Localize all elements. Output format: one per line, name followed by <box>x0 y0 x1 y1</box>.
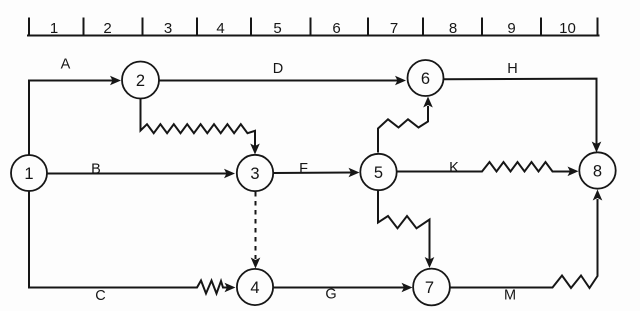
dashed dummy activity (node 3 to node 4) <box>255 192 257 259</box>
node 8 <box>579 152 615 188</box>
svg-text:2: 2 <box>103 20 111 37</box>
arrowhead G into node 7 <box>402 283 413 293</box>
svg-text:2: 2 <box>136 72 145 90</box>
svg-text:5: 5 <box>273 20 281 37</box>
svg-text:D: D <box>273 61 283 77</box>
svg-text:4: 4 <box>250 279 259 297</box>
svg-text:6: 6 <box>421 70 430 88</box>
float zigzag from node 5 up to node 6 <box>378 106 428 153</box>
svg-text:B: B <box>91 162 101 178</box>
svg-text:H: H <box>507 61 517 77</box>
svg-text:8: 8 <box>449 20 457 37</box>
arrowhead F into node 5 <box>349 168 360 178</box>
activity M arrow with float zigzag (node 7 to node 8) <box>450 199 598 288</box>
arrowhead K into node 8 <box>568 167 579 177</box>
arrowhead float 2-3 down into node 3 <box>250 144 260 155</box>
svg-text:7: 7 <box>425 279 434 297</box>
svg-text:10: 10 <box>559 20 576 37</box>
arrowhead C into node 4 <box>225 283 236 293</box>
arrowheads <box>110 76 602 293</box>
svg-text:K: K <box>449 160 459 176</box>
svg-text:5: 5 <box>374 164 383 182</box>
svg-text:9: 9 <box>507 20 515 37</box>
activity D arrow (node 2 to node 6) <box>159 80 398 82</box>
node 2 <box>122 62 159 99</box>
node 5 <box>360 154 396 190</box>
arrowhead H down into node 8 <box>592 142 602 153</box>
node 6 <box>408 60 444 96</box>
svg-text:C: C <box>95 288 105 304</box>
svg-text:A: A <box>61 57 71 73</box>
svg-text:3: 3 <box>250 165 259 183</box>
activity B arrow (node 1 to node 3) <box>48 173 228 175</box>
node numbers <box>24 70 602 297</box>
arrowhead B into node 3 <box>224 169 235 179</box>
time scale ruler baseline <box>28 35 599 37</box>
svg-text:1: 1 <box>24 165 33 183</box>
arrowhead float 5-7 down into node 7 <box>425 257 435 268</box>
activity H arrow (node 6 to node 8) <box>444 79 597 144</box>
svg-text:G: G <box>325 287 336 303</box>
arrowhead A into node 2 <box>110 76 121 86</box>
node 1 <box>11 155 47 191</box>
arrowhead M up into node 8 <box>593 190 603 201</box>
node 7 <box>413 269 450 306</box>
activity labels <box>61 57 518 305</box>
node 3 <box>237 155 273 191</box>
svg-text:F: F <box>299 161 308 177</box>
svg-text:3: 3 <box>164 20 172 37</box>
svg-text:4: 4 <box>216 20 224 37</box>
arrowhead D into node 6 <box>395 76 406 86</box>
svg-text:1: 1 <box>50 20 58 37</box>
node 4 <box>237 269 273 305</box>
node circles <box>11 60 616 305</box>
activity C arrow with free float zigzag (node 1 to node 4) <box>29 191 227 294</box>
float zigzag from node 2 down to node 3 <box>141 98 256 146</box>
activity A arrow (node 1 to node 2) <box>29 81 113 156</box>
ruler ticks <box>29 19 598 36</box>
svg-text:6: 6 <box>332 20 340 37</box>
svg-text:8: 8 <box>593 162 602 180</box>
svg-text:M: M <box>504 288 516 304</box>
arrowhead dummy down into node 4 <box>251 258 261 269</box>
activity K arrow with float zigzag (node 5 to node 8) <box>397 162 571 172</box>
arrowhead float 5-6 up into node 6 <box>423 97 433 108</box>
svg-text:7: 7 <box>390 20 398 37</box>
ruler period numbers 1-10 <box>50 20 576 37</box>
activity G arrow (node 4 to node 7) <box>274 287 405 289</box>
activity F arrow (node 3 to node 5) <box>274 172 352 175</box>
float zigzag from node 5 down to node 7 <box>378 190 430 260</box>
